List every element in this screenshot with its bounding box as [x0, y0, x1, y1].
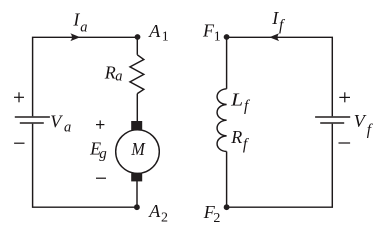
wire F1 top horizontal to right corner — [227, 37, 333, 116]
svg-text:L: L — [230, 90, 243, 110]
field coil Lf/Rf (4 loops) — [217, 89, 227, 152]
label Eg minus — [96, 177, 106, 179]
wire right vertical below Vf and bottom to F2 — [227, 124, 333, 208]
svg-text:1: 1 — [162, 29, 169, 44]
motor bottom brush square — [131, 173, 142, 181]
motor M circle — [116, 130, 160, 174]
label Vf minus — [339, 142, 351, 144]
svg-text:2: 2 — [213, 211, 220, 225]
arrow Ia (pointing right) — [70, 33, 80, 41]
svg-text:a: a — [80, 20, 87, 36]
svg-text:f: f — [243, 136, 250, 153]
svg-text:I: I — [72, 10, 80, 30]
label Va plus — [14, 92, 24, 102]
svg-text:f: f — [244, 97, 251, 114]
wire left vertical below battery and bottom to A2 — [33, 124, 137, 208]
svg-text:V: V — [354, 111, 367, 131]
svg-text:R: R — [230, 127, 242, 147]
battery Vf plates — [315, 117, 350, 123]
arrow If (pointing left) — [269, 33, 279, 41]
node F2 dot — [224, 204, 230, 210]
label Eg plus — [96, 120, 104, 128]
svg-text:f: f — [367, 122, 374, 139]
wire F1 down to coil — [226, 37, 228, 89]
wire motor bottom terminal to A2 — [136, 181, 138, 207]
svg-text:A: A — [148, 201, 161, 221]
svg-text:1: 1 — [214, 29, 221, 44]
svg-text:g: g — [99, 146, 107, 162]
label Vf plus — [339, 92, 350, 102]
svg-text:2: 2 — [161, 211, 168, 225]
node A2 dot — [134, 204, 140, 210]
wire A1 down to resistor — [136, 37, 138, 55]
wire resistor to motor top terminal — [136, 94, 138, 122]
svg-text:M: M — [131, 139, 146, 159]
battery Va plates — [15, 117, 50, 123]
label Va minus — [14, 142, 24, 144]
svg-text:f: f — [279, 17, 286, 34]
svg-text:V: V — [50, 111, 63, 131]
svg-text:A: A — [148, 21, 161, 41]
wire top-left horizontal (Va to A1) — [33, 37, 138, 116]
node A1 dot — [135, 34, 141, 40]
svg-text:a: a — [115, 69, 122, 85]
wire coil down to F2 — [226, 152, 228, 208]
node F1 dot — [224, 34, 230, 40]
svg-text:R: R — [104, 62, 116, 82]
resistor R_a zigzag — [130, 55, 144, 94]
motor top brush square — [131, 121, 142, 130]
svg-text:a: a — [64, 120, 71, 136]
